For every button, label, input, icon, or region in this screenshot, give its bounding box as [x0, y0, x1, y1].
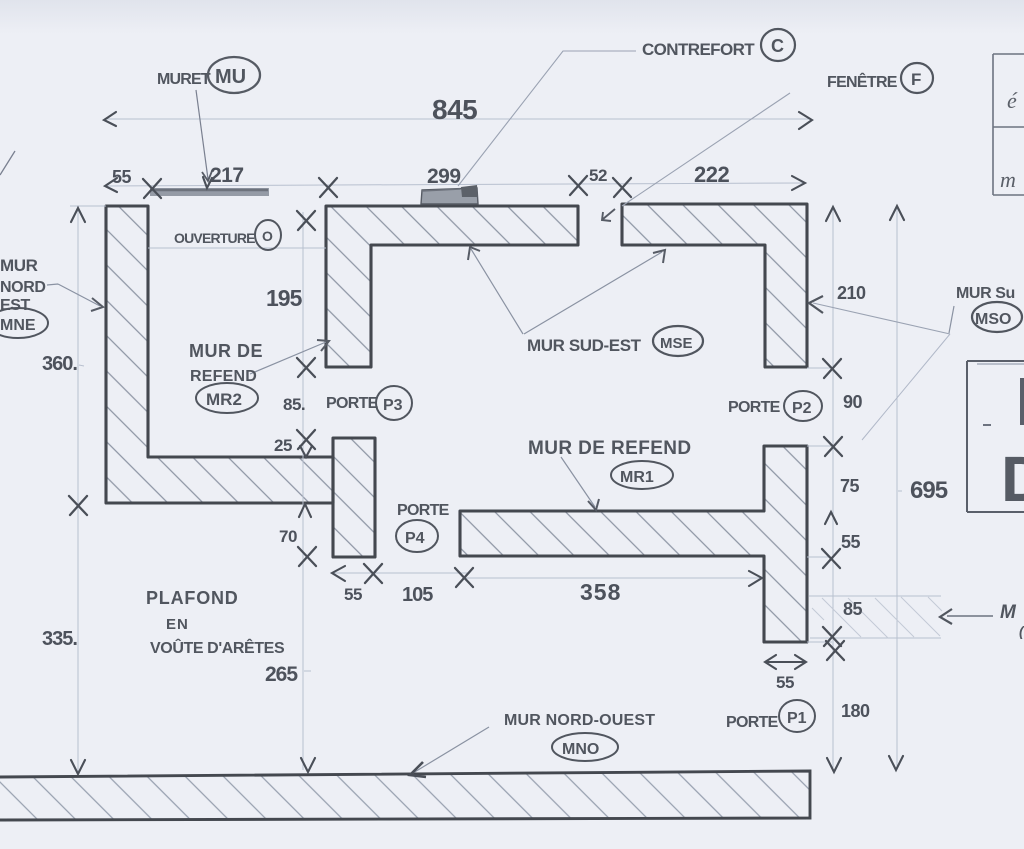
ellipse MNO	[552, 733, 618, 761]
ellipse MNE	[0, 308, 48, 338]
tick at 265	[304, 670, 311, 672]
ghost hatch band right of P1	[812, 597, 942, 638]
wall F vertical at P1 + wall MR1 horizontal (T-shape)	[460, 446, 807, 642]
svg-text:P4: P4	[405, 530, 425, 547]
svg-text:MR1: MR1	[620, 469, 654, 486]
arrow 358 right	[749, 571, 762, 586]
svg-text:EN: EN	[166, 616, 189, 633]
arrow mid line 25 down	[300, 446, 312, 457]
X marks top dim line	[143, 179, 161, 198]
svg-text:M: M	[1000, 602, 1017, 623]
svg-text:MUR SUD-EST: MUR SUD-EST	[527, 336, 642, 355]
svg-text:MU: MU	[215, 66, 246, 88]
circle F	[901, 63, 933, 93]
arrow 845 right	[799, 112, 812, 129]
leader MNO	[410, 727, 489, 777]
svg-text:EST: EST	[0, 297, 31, 314]
svg-text:MUR DE REFEND: MUR DE REFEND	[528, 438, 692, 459]
svg-text:299: 299	[427, 165, 461, 188]
circle O	[255, 220, 281, 250]
faint construction lines	[70, 119, 941, 772]
svg-text:D: D	[1001, 443, 1024, 515]
guide y637 right	[810, 637, 941, 639]
svg-text:é: é	[1007, 88, 1018, 113]
svg-text:m: m	[1000, 167, 1016, 192]
guide above left wall	[70, 205, 106, 207]
corner diagonal top-left	[0, 151, 15, 175]
dimension arrows	[71, 112, 904, 774]
box partial letter top	[1020, 378, 1024, 425]
circle C	[761, 29, 795, 61]
circle MU	[208, 57, 260, 93]
wall MNE left + room1 bottom (L-shape)	[106, 206, 333, 503]
svg-text:MSO: MSO	[975, 311, 1011, 328]
svg-text:195: 195	[266, 285, 303, 311]
tick at 360	[79, 365, 84, 366]
leader muret	[196, 90, 212, 181]
ellipse MSO	[972, 302, 1022, 332]
dim line top openings	[105, 183, 804, 186]
svg-text:360.: 360.	[42, 353, 77, 375]
right vertical dim line 2	[896, 206, 898, 768]
svg-text:75: 75	[840, 476, 860, 496]
leader MSO to wall with 210 arrow	[809, 296, 954, 440]
svg-text:PORTE: PORTE	[326, 395, 379, 412]
svg-text:90: 90	[843, 392, 863, 412]
svg-text:F: F	[911, 70, 921, 89]
wall MNO bottom band	[0, 771, 810, 820]
svg-text:MUR: MUR	[0, 256, 38, 275]
svg-text:FENÊTRE: FENÊTRE	[827, 72, 898, 91]
svg-text:845: 845	[432, 94, 477, 125]
middle vertical dim line	[302, 212, 304, 770]
leader fenetre	[622, 93, 790, 206]
box bottom right	[967, 361, 1024, 512]
svg-text:335.: 335.	[42, 628, 77, 650]
extension y368	[807, 367, 832, 369]
svg-text:85: 85	[843, 599, 863, 619]
arrow 845 left	[104, 112, 116, 126]
arrow top-open left	[105, 178, 117, 192]
svg-text:PLAFOND: PLAFOND	[146, 588, 239, 608]
extension y642	[807, 641, 832, 643]
svg-text:PORTE: PORTE	[728, 399, 781, 416]
svg-text:180: 180	[841, 701, 870, 721]
svg-text:55: 55	[841, 532, 861, 552]
svg-text:OUVERTURE: OUVERTURE	[174, 230, 255, 246]
extension y446	[807, 445, 832, 447]
arrow right2 up	[890, 206, 904, 220]
dim line 358	[464, 577, 760, 579]
ellipse MR1	[611, 461, 673, 489]
double arrow 55 P1	[765, 655, 806, 669]
X marks bottom dims	[364, 564, 382, 583]
svg-text:55: 55	[344, 585, 362, 604]
svg-text:MURET: MURET	[157, 71, 211, 88]
table top right	[993, 54, 1024, 195]
left vertical dim line	[77, 208, 79, 772]
arrow 55 bottom left	[332, 566, 345, 581]
svg-text:MUR NORD-OUEST: MUR NORD-OUEST	[504, 712, 655, 729]
svg-text:P1: P1	[787, 710, 807, 727]
svg-text:210: 210	[837, 283, 866, 303]
svg-text:25: 25	[274, 436, 292, 455]
contrefort C filled block	[421, 185, 478, 204]
fenetre hook arrow	[602, 209, 615, 221]
svg-text:MNE: MNE	[0, 317, 36, 334]
svg-text:NORD: NORD	[0, 279, 46, 296]
wall E top-right (L-shape)	[622, 204, 807, 367]
leader M right edge arrow	[940, 609, 993, 624]
leader MSE left arrow	[468, 247, 523, 334]
svg-text:52: 52	[589, 166, 607, 185]
ellipse MSE	[653, 326, 703, 356]
svg-text:MR2: MR2	[206, 390, 242, 409]
svg-text:265: 265	[265, 663, 298, 686]
guide under ouverture	[148, 247, 326, 249]
wall column C between P3/P4	[333, 438, 375, 557]
svg-text:PORTE: PORTE	[726, 714, 779, 731]
leader MNE	[47, 284, 103, 311]
svg-text:VOÛTE D'ARÊTES: VOÛTE D'ARÊTES	[150, 638, 285, 657]
svg-text:55: 55	[112, 167, 132, 187]
arrow right1 up	[826, 207, 840, 221]
leader MSE right arrow	[524, 250, 665, 334]
svg-text:P3: P3	[383, 397, 403, 414]
arrow right2 down	[889, 756, 903, 770]
arrow 222 right	[792, 176, 805, 190]
svg-text:85.: 85.	[283, 395, 305, 414]
svg-text:217: 217	[210, 164, 244, 187]
X marks right line 1	[823, 359, 841, 378]
arrow right1 small up	[825, 512, 837, 524]
dim line 845	[104, 118, 810, 120]
arrow left line down	[71, 760, 85, 774]
arrow right1 down	[827, 758, 841, 772]
wall D top-left of main room (L-shape)	[326, 206, 578, 367]
svg-text:MNO: MNO	[562, 741, 599, 758]
svg-text:105: 105	[402, 584, 433, 606]
svg-text:695: 695	[910, 477, 948, 504]
svg-text:P2: P2	[792, 400, 812, 417]
svg-text:MSE: MSE	[660, 335, 693, 352]
guide y596 right	[809, 595, 941, 597]
svg-text:(: (	[1019, 623, 1024, 639]
leader MR2	[250, 340, 329, 374]
svg-text:358: 358	[580, 579, 621, 605]
svg-text:O: O	[262, 228, 273, 244]
svg-text:222: 222	[694, 162, 729, 187]
ellipse MR2	[196, 383, 258, 413]
X marks middle vertical line	[297, 211, 315, 230]
box small dash	[983, 424, 991, 426]
right vertical dim line 1	[832, 207, 834, 770]
arrow left line up	[71, 208, 85, 222]
arrow mid line 70 up	[299, 504, 311, 517]
WALLS	[106, 204, 807, 642]
arrow 217 small down	[203, 177, 212, 188]
svg-text:CONTREFORT: CONTREFORT	[642, 40, 755, 59]
leader MR1	[561, 457, 599, 510]
svg-text:MUR Su: MUR Su	[956, 285, 1015, 302]
leader contrefort	[458, 51, 636, 186]
svg-text:PORTE: PORTE	[397, 502, 450, 519]
muret MU gray bar	[150, 188, 269, 196]
extension y557	[807, 556, 830, 558]
svg-text:MUR DE: MUR DE	[189, 341, 263, 361]
arrow mid line down	[301, 758, 315, 772]
X marks left line	[69, 496, 87, 515]
svg-text:70: 70	[279, 527, 297, 546]
svg-text:55: 55	[776, 673, 794, 692]
tick at 695	[898, 490, 902, 492]
dim line 55/105	[331, 572, 470, 574]
svg-text:C: C	[771, 36, 784, 56]
